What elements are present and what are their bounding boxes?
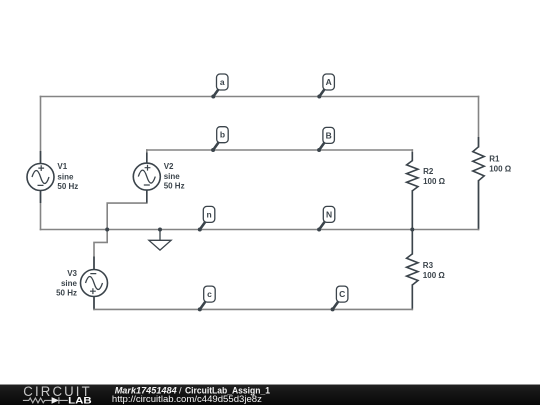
wire R3 bottom lead <box>411 285 413 309</box>
svg-text:c: c <box>207 289 212 299</box>
wire neutral bus row n/N <box>41 229 479 231</box>
svg-text:sine: sine <box>57 172 74 181</box>
resistor R1 <box>473 137 484 229</box>
svg-text:50 Hz: 50 Hz <box>56 289 77 298</box>
svg-text:C: C <box>339 289 345 299</box>
voltage source V2 <box>133 153 160 203</box>
svg-text:V3: V3 <box>67 269 77 278</box>
svg-text:100 Ω: 100 Ω <box>423 177 446 186</box>
wire row a/A top <box>41 96 479 98</box>
wire right column bottom (R1 to bus) <box>478 181 480 230</box>
svg-text:b: b <box>220 130 225 140</box>
footer text <box>112 385 270 405</box>
svg-text:sine: sine <box>61 279 78 288</box>
voltage source V3 (reversed polarity) <box>81 257 108 309</box>
wire V1 bottom column <box>40 191 42 230</box>
wire V2 top stub <box>146 150 148 163</box>
wire V3 bottom stub <box>93 297 95 310</box>
svg-text:V2: V2 <box>164 162 174 171</box>
wire <box>41 97 479 310</box>
wire row c/C <box>94 308 412 310</box>
svg-text:n: n <box>206 209 211 219</box>
svg-text:sine: sine <box>164 172 181 181</box>
wire R2 bottom lead <box>411 191 413 230</box>
node n flag <box>198 206 215 231</box>
node N flag <box>317 206 335 231</box>
svg-text:100 Ω: 100 Ω <box>489 164 512 173</box>
node b flag <box>211 127 228 152</box>
node a flag <box>211 74 228 99</box>
node A flag <box>317 74 334 99</box>
svg-text:a: a <box>220 77 225 87</box>
svg-text:100 Ω: 100 Ω <box>423 271 446 280</box>
node junction V2-bus <box>105 228 109 232</box>
wire V1 top column <box>40 97 42 164</box>
node B flag <box>317 127 334 152</box>
resistor R3 <box>407 230 418 308</box>
node C flag <box>331 286 348 311</box>
svg-text:50 Hz: 50 Hz <box>164 182 185 191</box>
svg-text:A: A <box>326 77 332 87</box>
junction dots <box>105 228 414 232</box>
wire V2 bottom jog to bus <box>107 190 147 230</box>
wire right column top (A to R1) <box>478 97 480 147</box>
footer bar <box>0 385 540 405</box>
resistor R2 <box>407 152 418 229</box>
node junction R2/R3-bus <box>410 228 414 232</box>
svg-text:V1: V1 <box>57 162 67 171</box>
wire row b/B <box>147 149 413 151</box>
wire R2 top lead <box>411 150 413 161</box>
node junction ground-bus <box>158 228 162 232</box>
svg-text:B: B <box>326 130 332 140</box>
svg-text:R1: R1 <box>489 155 500 164</box>
wire bus to V3 jog <box>94 230 107 270</box>
wire R3 top lead <box>411 230 413 254</box>
voltage source V1 <box>27 151 54 203</box>
svg-text:LAB: LAB <box>68 395 92 405</box>
ground <box>149 230 171 251</box>
svg-text:R3: R3 <box>423 261 434 270</box>
CircuitLab logo <box>23 384 92 405</box>
svg-text:http://circuitlab.com/c449d55d: http://circuitlab.com/c449d55d3je8z <box>112 394 262 405</box>
svg-text:50 Hz: 50 Hz <box>57 182 78 191</box>
svg-text:R2: R2 <box>423 167 434 176</box>
node c flag <box>198 286 215 311</box>
svg-text:N: N <box>326 209 332 219</box>
